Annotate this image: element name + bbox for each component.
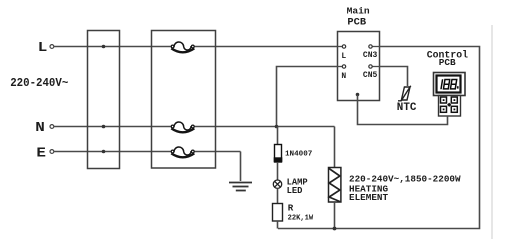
svg-text:1N4007: 1N4007 xyxy=(285,151,313,159)
terminal circle L xyxy=(50,45,54,49)
svg-text:N: N xyxy=(35,121,45,136)
Main PCB block U1 xyxy=(338,32,380,101)
lamp LED indicator xyxy=(273,180,281,188)
button top-right xyxy=(451,97,457,103)
svg-text:N: N xyxy=(341,72,346,81)
terminal circle N xyxy=(50,125,54,129)
wire L horizontal xyxy=(54,46,338,48)
wire CN3 to right rail xyxy=(278,47,480,229)
svg-text:Main: Main xyxy=(347,6,370,17)
thermal cutout on N line xyxy=(171,122,194,132)
bottom pin of Main PCB xyxy=(356,93,360,97)
terminal block (input connector) xyxy=(88,31,120,169)
seven segment digits 188 xyxy=(441,79,457,89)
wire N horizontal xyxy=(54,126,335,128)
thermal cutout on E line xyxy=(171,147,194,157)
label 220-240V~ supply xyxy=(10,77,68,89)
svg-text:22K,1W: 22K,1W xyxy=(288,214,314,222)
junction dot on E in terminal block xyxy=(102,150,106,154)
wire earth drop xyxy=(240,152,242,182)
button bottom-right xyxy=(451,106,457,112)
pin CN3 of Main PCB xyxy=(363,45,380,60)
svg-text:NTC: NTC xyxy=(397,102,417,114)
wire LED to resistor xyxy=(277,188,279,203)
Control PCB title xyxy=(427,50,468,69)
wire resistor to bottom rail xyxy=(277,221,279,229)
label L (mains live) xyxy=(38,41,48,56)
label E (earth) xyxy=(36,146,46,161)
seven segment display window xyxy=(437,76,461,93)
thermal cutout on L line xyxy=(171,42,194,52)
thermal cutout block xyxy=(152,31,216,169)
pin CN5 of Main PCB xyxy=(363,65,380,80)
svg-text:PCB: PCB xyxy=(439,57,456,68)
resistor R 22K,1W xyxy=(273,204,283,222)
ground symbol xyxy=(229,183,252,191)
label NTC xyxy=(397,102,417,114)
svg-text:220-240V~: 220-240V~ xyxy=(10,77,68,89)
thermistor NTC xyxy=(398,86,411,101)
wire heater feed vertical xyxy=(334,127,336,168)
junction dot on N in terminal block xyxy=(102,125,106,129)
wire CN5 to NTC xyxy=(380,67,408,87)
display dot xyxy=(457,86,459,88)
center indicator diamond xyxy=(447,103,451,107)
svg-text:L: L xyxy=(341,52,346,61)
svg-text:LED: LED xyxy=(287,186,303,196)
label LAMP LED xyxy=(287,177,308,195)
Main PCB title xyxy=(347,6,370,29)
wire diode to LED xyxy=(277,162,279,180)
junction node N branch xyxy=(275,125,279,129)
pin L of Main PCB xyxy=(338,45,347,61)
label R 22K,1W xyxy=(288,202,314,222)
wire E horizontal xyxy=(54,151,241,153)
label 1N4007 xyxy=(285,151,313,159)
svg-text:E: E xyxy=(36,146,46,161)
wire N junction down to diode xyxy=(277,127,279,145)
terminal circle E xyxy=(50,150,54,154)
diode D1 1N4007 xyxy=(274,145,283,163)
junction dot on L in terminal block xyxy=(102,45,106,49)
Control PCB display unit body xyxy=(434,73,466,117)
label heating element rating xyxy=(349,173,461,203)
faint page edge line xyxy=(491,25,493,239)
svg-text:PCB: PCB xyxy=(347,17,366,29)
svg-text:ELEMENT: ELEMENT xyxy=(349,192,388,203)
button top-left xyxy=(441,97,447,103)
svg-text:CN5: CN5 xyxy=(363,71,378,80)
svg-text:R: R xyxy=(288,202,294,213)
label N (neutral) xyxy=(35,121,45,136)
button bottom-left xyxy=(441,106,447,112)
junction node heater bottom xyxy=(333,227,337,231)
wire heater bottom xyxy=(334,202,336,229)
svg-text:L: L xyxy=(38,41,48,56)
wire N pin to N line xyxy=(277,67,338,127)
wire Main PCB bottom to Control PCB xyxy=(358,95,448,125)
pin N of Main PCB xyxy=(338,65,347,81)
heating element xyxy=(329,168,341,203)
svg-text:CN3: CN3 xyxy=(363,51,378,60)
